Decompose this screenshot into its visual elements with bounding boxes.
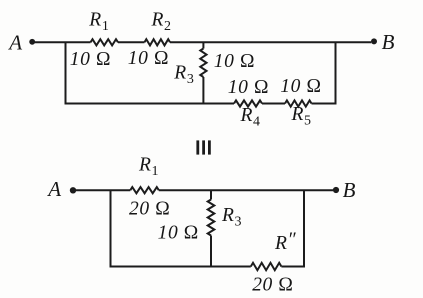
node A (bottom circuit) bbox=[46, 177, 76, 201]
left branch wire (bottom circuit) bbox=[110, 190, 112, 267]
wire R4 to R5 bbox=[262, 103, 285, 105]
bottom wire right segment R5 to right branch (top circuit) bbox=[312, 103, 337, 105]
wire node A to R1 (bottom circuit) bbox=[76, 189, 131, 191]
wire stub top of R3 (bottom circuit) bbox=[210, 190, 212, 199]
svg-text:20 Ω: 20 Ω bbox=[129, 198, 170, 219]
wire R2 to node B (top) bbox=[170, 41, 371, 43]
bottom wire left segment to R4 (top circuit) bbox=[65, 103, 235, 105]
node B (top circuit) bbox=[371, 30, 395, 54]
right branch wire (bottom circuit) bbox=[303, 190, 305, 267]
svg-text:A: A bbox=[7, 31, 22, 55]
wire R1 to R2 bbox=[118, 41, 145, 43]
wire R1 to node B (bottom circuit) bbox=[159, 189, 333, 191]
resistor R'' bbox=[251, 263, 282, 270]
node A (top circuit) bbox=[7, 31, 35, 55]
svg-text:10 Ω: 10 Ω bbox=[158, 223, 199, 244]
resistor R2 (top circuit) bbox=[145, 39, 171, 45]
resistor R1 (bottom circuit) bbox=[130, 187, 159, 193]
svg-text:B: B bbox=[343, 178, 356, 202]
resistor R3 (bottom circuit, vertical) bbox=[208, 200, 215, 236]
wire stub bottom of R3 to bottom wire (top circuit) bbox=[202, 77, 204, 105]
svg-text:10 Ω: 10 Ω bbox=[280, 76, 321, 97]
left branch wire (top circuit) bbox=[65, 42, 67, 104]
svg-text:10 Ω: 10 Ω bbox=[128, 48, 169, 69]
svg-text:10 Ω: 10 Ω bbox=[70, 49, 111, 70]
svg-text:A: A bbox=[46, 177, 61, 201]
resistor R3 (top circuit, vertical) bbox=[200, 49, 206, 78]
svg-text:20 Ω: 20 Ω bbox=[252, 275, 293, 296]
bottom wire right segment R'' to right branch (bottom circuit) bbox=[281, 266, 305, 268]
wire stub bottom of R3 to bottom wire (bottom circuit) bbox=[210, 236, 212, 268]
node B (bottom circuit) bbox=[333, 178, 356, 202]
equivalence symbol III bbox=[198, 140, 210, 154]
right branch wire (top circuit) bbox=[335, 42, 337, 104]
svg-text:B: B bbox=[382, 30, 395, 54]
svg-text:10 Ω: 10 Ω bbox=[214, 51, 255, 72]
resistor R4 bbox=[234, 100, 262, 106]
wire node A to junction / R1 (top) bbox=[35, 41, 91, 43]
svg-text:R″: R″ bbox=[274, 230, 297, 255]
resistor R1 (top circuit) bbox=[91, 39, 119, 45]
wire stub top of R3 (top circuit) bbox=[202, 42, 204, 48]
svg-text:10 Ω: 10 Ω bbox=[228, 77, 269, 98]
bottom wire left segment (bottom circuit) bbox=[110, 266, 251, 268]
resistor R5 bbox=[285, 100, 312, 106]
